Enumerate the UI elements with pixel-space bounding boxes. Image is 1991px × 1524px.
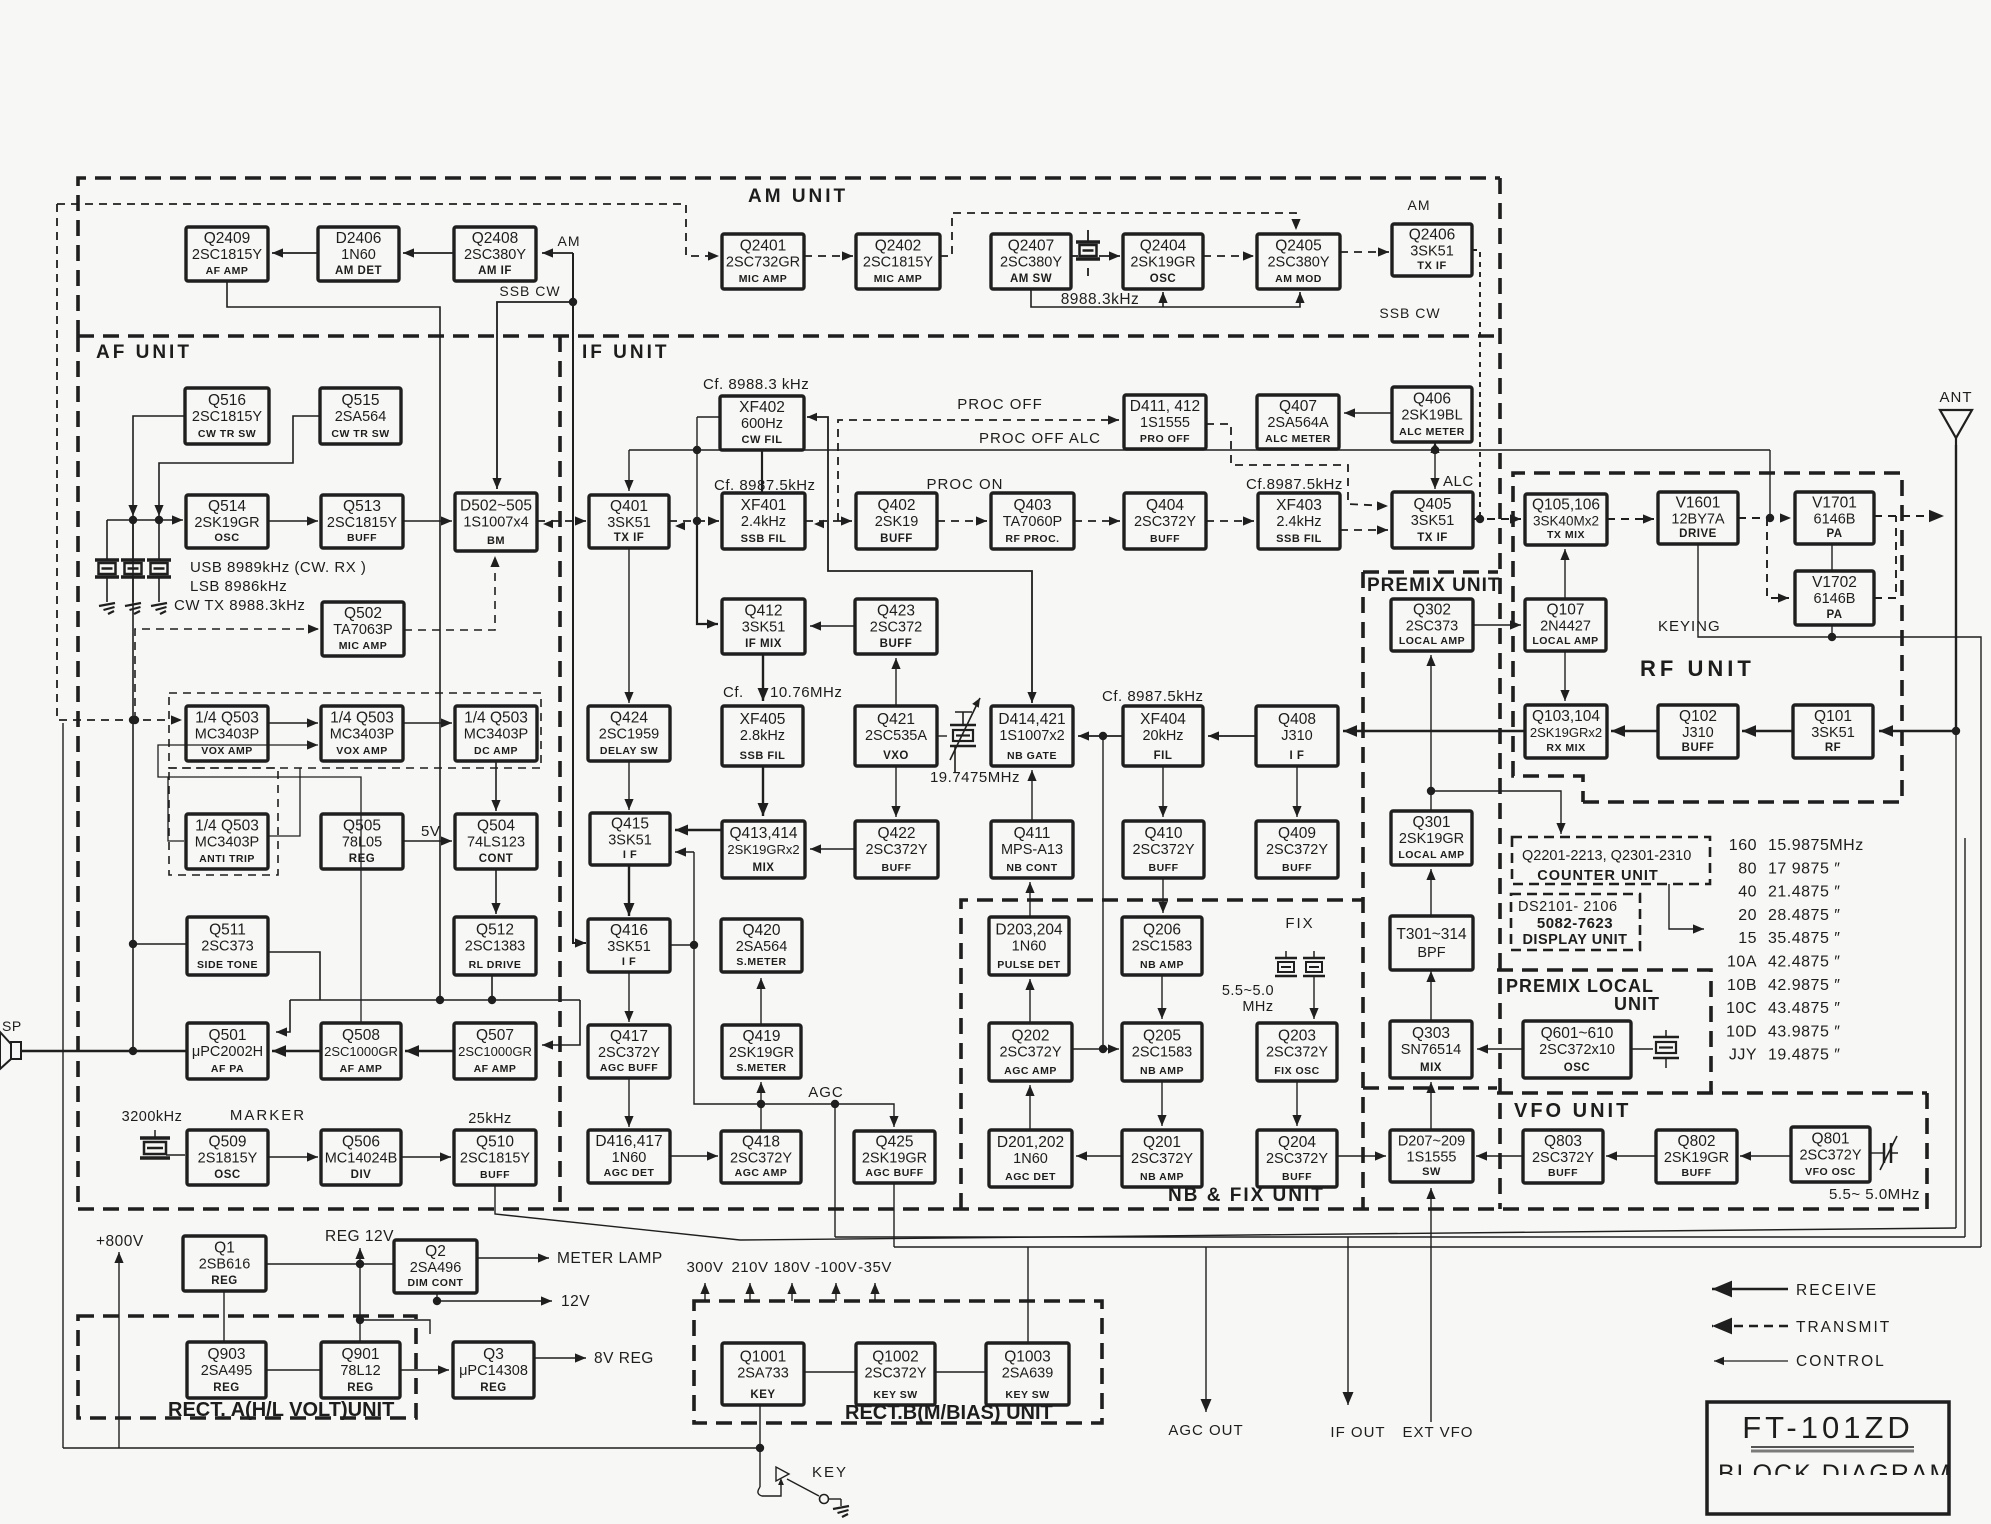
svg-text:ANT: ANT [1940,389,1973,406]
node Q3 tap [356,1316,364,1324]
svg-text:Q405: Q405 [1414,496,1452,513]
svg-text:1/4 Q503: 1/4 Q503 [330,710,394,727]
svg-text:DISPLAY UNIT: DISPLAY UNIT [1522,932,1627,948]
svg-text:210V: 210V [731,1259,768,1276]
node XF404 out tap [1099,732,1107,740]
label freq 15 [1768,930,1840,947]
svg-text:Q2408: Q2408 [472,230,519,247]
svg-text:Q411: Q411 [1014,825,1051,842]
svg-text:AGC BUFF: AGC BUFF [865,1167,923,1179]
wire VFO varcap link [1870,1152,1884,1154]
label TRANSMIT [1796,1319,1891,1336]
svg-text:Q409: Q409 [1278,825,1316,842]
wire AGC OUT line [1201,1247,1212,1412]
label MARKER [230,1107,306,1124]
block D207~209 SW [1390,1130,1473,1182]
svg-text:Q203: Q203 [1278,1027,1316,1044]
svg-text:Q415: Q415 [611,816,649,833]
svg-text:OSC: OSC [1564,1062,1590,1074]
block Q423 BUFF [855,599,937,654]
svg-text:D201,202: D201,202 [997,1134,1064,1151]
label +800V [96,1233,144,1250]
svg-text:AM DET: AM DET [335,265,382,277]
label band 15 [1738,930,1757,947]
block D502~505 BM [455,493,537,551]
wire volt arrow 300V [700,1283,709,1301]
ground gnd LSB [125,603,141,614]
wire IF OUT line [1343,1237,1354,1405]
svg-text:42.9875 ″: 42.9875 ″ [1768,977,1840,994]
wire EXT VFO line [1426,1188,1435,1422]
wire AM line into Q2408 [542,248,573,257]
wire Q601 crystal link [1631,1048,1653,1050]
wire Q2406 output dotted down [1472,250,1480,516]
svg-text:BUFF: BUFF [880,533,913,545]
block XF401 SSB FIL [722,493,805,549]
wire Q1002 to Q1003 [935,1371,986,1373]
svg-text:2SC373: 2SC373 [1406,619,1458,635]
node x133 mic junction [129,716,137,724]
svg-text:43.4875 ″: 43.4875 ″ [1768,1000,1840,1017]
wire Q412 to XF405 [758,654,769,701]
block Q412 IF MIX [722,599,805,654]
block D411,412 PRO OFF [1124,395,1206,449]
svg-text:160: 160 [1729,837,1757,854]
svg-text:TRANSMIT: TRANSMIT [1796,1319,1891,1336]
svg-text:S.METER: S.METER [736,956,786,968]
node ALC tap [1766,514,1774,522]
svg-text:2SB616: 2SB616 [199,1257,251,1273]
label freq JJY [1768,1047,1840,1064]
label AGC OUT [1168,1422,1243,1439]
svg-text:REG 12V: REG 12V [325,1228,394,1245]
svg-text:2SC732GR: 2SC732GR [726,255,800,271]
svg-text:REG: REG [347,1382,373,1394]
wire Q508 to Q501 [272,1045,321,1057]
block Q102 BUFF [1658,705,1738,758]
label EXT VFO [1403,1424,1474,1441]
svg-text:USB 8989kHz (CW. RX ): USB 8989kHz (CW. RX ) [190,559,366,576]
wire legend control [1714,1357,1788,1365]
node NB AGC junction [1099,1045,1107,1053]
svg-text:Cf.8987.5kHz: Cf.8987.5kHz [1246,476,1343,493]
wire V1601 to V1701 dashed [1738,513,1791,522]
svg-text:REG: REG [349,853,375,865]
wire XF404 to Q410 [1158,766,1167,817]
label RECT A UNIT [168,1399,394,1421]
svg-text:VFO UNIT: VFO UNIT [1514,1100,1631,1122]
wire Q417 to D416 [624,1078,633,1127]
wire Q107 to TX MIX [1560,549,1569,599]
block Q2408 AM IF [454,227,536,281]
wire Q1 to Q2 [266,1263,394,1265]
wire ANT to Q101 [1879,725,1956,737]
label volt 300V [686,1259,723,1276]
svg-text:3200kHz: 3200kHz [122,1109,183,1125]
svg-text:Q412: Q412 [745,603,783,620]
label freq 10C [1768,1000,1840,1017]
block Q2406 TX IF [1392,224,1472,276]
svg-text:12V: 12V [561,1293,590,1310]
wire left riser [62,723,64,1448]
wire NB tap to Q205 [1103,1044,1119,1053]
svg-text:-35V: -35V [858,1259,892,1276]
svg-text:RF UNIT: RF UNIT [1640,656,1755,681]
svg-text:MC3403P: MC3403P [330,727,394,743]
label PREMIX LOCAL [1506,976,1654,996]
svg-text:I F: I F [1290,750,1305,762]
label 12V [561,1293,590,1310]
svg-text:MC14024B: MC14024B [325,1151,398,1167]
svg-text:VOX AMP: VOX AMP [201,745,253,757]
wire XF403 to Q405 dashed [1340,525,1388,534]
svg-text:80: 80 [1738,860,1757,877]
wire Q903 to Q901 [266,1369,321,1371]
label AM near Q2408 [558,233,581,249]
block Q803 BUFF [1523,1130,1603,1183]
svg-text:METER LAMP: METER LAMP [557,1250,663,1267]
svg-text:D416,417: D416,417 [595,1133,662,1150]
wire Q401 to XF401 dashed [669,516,719,525]
block Q422 BUFF [855,821,938,878]
label freq 10A [1768,954,1840,971]
svg-text:LOCAL AMP: LOCAL AMP [1399,635,1465,647]
unit border AM UNIT top-left [78,178,1500,336]
svg-text:TX MIX: TX MIX [1547,529,1585,541]
wire Q406 to Q405 ALC [1430,442,1439,489]
wire DC AMP to Q504 [491,761,500,811]
wire bus drop AGC [834,1104,836,1237]
wire Q302 to Q107 [1473,620,1521,629]
svg-text:DIV: DIV [351,1169,372,1181]
svg-text:2S1815Y: 2S1815Y [198,1151,258,1167]
svg-text:OSC: OSC [214,532,239,544]
svg-text:Q516: Q516 [208,392,246,409]
wire NB tap down [1102,736,1104,1049]
wire Q516 down [128,416,185,516]
svg-text:Q418: Q418 [742,1134,780,1151]
svg-text:AM IF: AM IF [478,265,512,277]
svg-text:CW FIL: CW FIL [742,434,783,446]
svg-text:BUFF: BUFF [882,862,912,874]
svg-text:19.7475MHz: 19.7475MHz [930,769,1020,786]
svg-text:21.4875 ″: 21.4875 ″ [1768,884,1840,901]
block Q424 DELAY SW [588,706,670,761]
svg-text:FIL: FIL [1154,750,1173,762]
wire volt arrow -100V [831,1283,840,1301]
svg-text:SSB FIL: SSB FIL [740,750,786,762]
wire V1701 to V1702 link [1831,544,1833,571]
svg-text:CW TX 8988.3kHz: CW TX 8988.3kHz [174,597,305,614]
label freq 80 [1768,860,1840,877]
svg-text:2SA639: 2SA639 [1002,1366,1054,1382]
wire Q514 to Q513 [268,516,318,525]
wire AGC into Q415 [675,847,694,856]
wire x697 vertical [696,417,698,521]
svg-text:NB GATE: NB GATE [1007,750,1057,762]
label DS2101-2106 [1518,899,1618,915]
svg-text:78L12: 78L12 [340,1363,380,1379]
label RECT B UNIT [845,1402,1053,1424]
svg-text:AGC AMP: AGC AMP [735,1167,788,1179]
svg-text:S.METER: S.METER [736,1062,786,1074]
svg-text:RECEIVE: RECEIVE [1796,1282,1878,1299]
label Cf. 8987.5kHz left [714,477,816,494]
svg-text:Q410: Q410 [1145,825,1183,842]
svg-text:XF404: XF404 [1140,711,1186,728]
svg-text:2SC372Y: 2SC372Y [1532,1150,1594,1166]
svg-text:2SC372Y: 2SC372Y [865,842,927,858]
svg-text:V1702: V1702 [1812,574,1857,591]
svg-text:I F: I F [622,956,636,968]
svg-text:RF PROC.: RF PROC. [1005,533,1059,545]
svg-text:D207~209: D207~209 [1398,1134,1465,1150]
wire bus drop Q425 [893,1183,895,1247]
svg-text:8V REG: 8V REG [594,1350,654,1367]
block Q418 AGC AMP [721,1131,801,1183]
crystal carrier crystal LSB [121,560,145,577]
svg-text:IF OUT: IF OUT [1330,1424,1385,1441]
wire +800V arrow [114,1252,123,1448]
svg-text:78L05: 78L05 [342,835,382,851]
svg-text:Q419: Q419 [743,1028,781,1045]
svg-text:SSB CW: SSB CW [1379,305,1440,321]
svg-text:2SK19GR: 2SK19GR [862,1151,927,1167]
svg-text:Q501: Q501 [209,1027,247,1044]
wire Q507 to Q508 [405,1045,454,1057]
svg-text:DRIVE: DRIVE [1679,528,1717,540]
label ALC [1443,473,1474,490]
svg-text:J310: J310 [1281,728,1312,744]
svg-text:Q101: Q101 [1814,708,1852,725]
label band 80 [1738,860,1757,877]
svg-text:2SC1959: 2SC1959 [599,727,659,743]
wire Q101 to Q102 [1742,725,1793,737]
antenna ANT [1940,410,1972,445]
block Q101 RF [1793,705,1873,758]
unit border RECT A UNIT [78,1316,416,1418]
block Q1001 KEY [722,1343,804,1405]
wire AGC rail [694,852,899,1127]
node ALC rail junction [1431,446,1439,454]
crystal marker crystal 3200kHz [140,1138,170,1158]
block Q515 CW TR SW [320,388,401,444]
wire Q421 to Q422 [891,766,900,817]
svg-text:Q509: Q509 [209,1134,247,1151]
svg-text:Q2409: Q2409 [204,230,251,247]
premix crystal [1653,1030,1679,1068]
block Q417 AGC BUFF [588,1025,670,1078]
svg-text:Q512: Q512 [476,921,514,938]
label freq 10B [1768,977,1840,994]
wire carrier crystal rail to Q514 [107,515,183,524]
block Q205 NB AMP [1122,1023,1202,1081]
svg-text:AGC BUFF: AGC BUFF [600,1062,658,1074]
block Q401 TX IF [589,495,669,548]
node AGC Q419 tap [757,1100,765,1108]
wire Q422 to Q413 [810,844,855,853]
node x697 on rail [693,446,701,454]
wire 8988.3kHz feedback [1031,289,1305,307]
svg-text:3SK51: 3SK51 [1410,244,1454,260]
wire Q803 to D207 [1476,1151,1523,1160]
label freq 10D [1768,1023,1840,1040]
block D201,202 AGC DET [989,1130,1072,1187]
svg-text:AM: AM [558,233,581,249]
svg-text:Cf. 8987.5kHz: Cf. 8987.5kHz [1102,688,1204,705]
wire Q502 dashed input [135,624,319,720]
svg-text:Q421: Q421 [877,711,915,728]
node x697 on TX line [693,517,701,525]
svg-text:Q206: Q206 [1143,921,1181,938]
label AF UNIT [96,342,192,363]
label NB & FIX UNIT [1168,1185,1325,1206]
label KEY [812,1464,848,1481]
svg-text:NB AMP: NB AMP [1140,1065,1184,1077]
svg-text:Q513: Q513 [343,498,381,515]
node SSB CW junction [569,298,577,306]
svg-text:Q401: Q401 [610,498,648,515]
svg-text:AGC OUT: AGC OUT [1168,1422,1243,1439]
wire crystal stem LSB [132,520,134,560]
wire mic dashed to Q2401 [57,204,719,261]
svg-text:Q413,414: Q413,414 [729,825,797,842]
svg-text:2SK19GRx2: 2SK19GRx2 [727,842,799,857]
svg-text:SN76514: SN76514 [1401,1042,1461,1058]
label AM near Q2406 [1408,197,1431,213]
wire marker crystal to Q509 [166,1154,185,1156]
unit border AM/IF right edge [1498,178,1502,1209]
block Q303 MIX [1390,1021,1472,1078]
svg-text:SIDE TONE: SIDE TONE [197,959,258,971]
svg-text:BUFF: BUFF [347,532,377,544]
label USB freq [190,559,366,576]
wire Q512 to audio bus [491,975,493,1000]
wire crystal stem USB [106,520,108,560]
svg-text:2SC372Y: 2SC372Y [1132,842,1194,858]
block Q415 IF [590,813,670,865]
block Q421 VXO [855,706,937,766]
block D416,417 AGC DET [588,1130,670,1183]
svg-text:AM UNIT: AM UNIT [748,186,848,207]
svg-text:JJY: JJY [1729,1047,1757,1064]
svg-text:10.76MHz: 10.76MHz [770,684,842,701]
svg-text:1S1007x2: 1S1007x2 [999,728,1064,744]
wire Q2 to METER LAMP [477,1253,549,1262]
wire XF405 to Q413 [758,766,769,816]
wire Q513 to BM [403,516,452,525]
label volt 210V [731,1259,768,1276]
wire Q2407 to crystal [1071,255,1078,257]
block Q302 LOCAL AMP [1391,599,1473,651]
wire AFAMP feedback to VOX2 [158,740,361,1023]
svg-text:2SC380Y: 2SC380Y [1267,255,1329,271]
block Q513 BUFF [321,495,403,548]
svg-text:VFO OSC: VFO OSC [1805,1166,1856,1178]
svg-text:CW TR SW: CW TR SW [331,428,389,440]
wire Q802 to Q803 [1606,1151,1656,1160]
svg-text:2SC372Y: 2SC372Y [1266,1044,1328,1060]
wire Q416 to Q417 [624,972,633,1022]
wire crystal gnd stem CWX [158,577,160,602]
block Q509 OSC [187,1130,268,1185]
label volt -100V [815,1259,858,1276]
svg-text:1N60: 1N60 [1012,938,1047,954]
svg-text:Q903: Q903 [208,1346,246,1363]
svg-text:20: 20 [1738,907,1757,924]
svg-text:2SC372x10: 2SC372x10 [1539,1042,1615,1058]
unit border VOX dashed box [169,693,541,875]
label KEYING [1658,618,1721,635]
block Q801 VFO OSC [1791,1127,1870,1182]
svg-text:NB CONT: NB CONT [1006,862,1057,874]
node AGC Q416 tap [690,941,698,949]
block Q1 REG [183,1236,266,1291]
svg-text:MIC AMP: MIC AMP [874,273,923,285]
svg-text:μPC2002H: μPC2002H [192,1044,263,1060]
wire crystal stem CWX [158,520,160,560]
block Q1003 KEY SW [986,1343,1069,1405]
block Q2401 MIC AMP [722,234,804,289]
label PROC ON [926,476,1003,493]
svg-text:BPF: BPF [1417,945,1445,961]
wire bus line 2 [835,1236,1965,1238]
label COUNTER UNIT [1537,868,1659,884]
svg-text:I F: I F [623,849,637,861]
wire Q413 to Q415 [675,825,722,836]
label REG 12V [325,1228,394,1245]
svg-text:REG: REG [213,1382,239,1394]
svg-text:Q417: Q417 [610,1028,648,1045]
unit border VFO right [1925,1093,1929,1209]
svg-text:2SC1815Y: 2SC1815Y [192,409,262,425]
svg-text:TX IF: TX IF [1417,532,1448,544]
block Q901 REG [321,1342,400,1398]
svg-text:2SK19BL: 2SK19BL [1401,408,1462,424]
label band 10C [1726,1000,1757,1017]
wire Q411 to NB GATE [1027,770,1036,821]
block Q503b VOX AMP [321,706,403,761]
svg-text:MPS-A13: MPS-A13 [1001,842,1063,858]
wire Q202 to junction [1072,1048,1103,1050]
svg-text:2SC1815Y: 2SC1815Y [863,255,933,271]
node x133 Q511 junction [129,940,137,948]
svg-text:1N60: 1N60 [1013,1151,1048,1167]
svg-text:DELAY SW: DELAY SW [600,745,658,757]
wire Q511 left link [133,943,187,945]
wire Q205 to Q201 [1157,1081,1166,1126]
svg-text:VOX AMP: VOX AMP [336,745,388,757]
svg-text:2SC380Y: 2SC380Y [464,247,526,263]
svg-text:2SC1815Y: 2SC1815Y [460,1151,530,1167]
svg-text:Q424: Q424 [610,710,648,727]
ground key ground [833,1506,849,1517]
svg-text:BM: BM [487,535,505,547]
wire Q424 to Q415 [624,761,633,810]
block Q516 CW TR SW [185,388,269,444]
svg-text:D2406: D2406 [336,230,382,247]
svg-text:2SC372Y: 2SC372Y [1799,1148,1861,1164]
wire volt arrow 180V [787,1283,796,1301]
block Q107 LOCAL AMP [1525,599,1606,651]
crystal carrier crystal CWX [147,560,171,577]
wire Q206 to Q205 [1157,975,1166,1019]
unit border COUNTER UNIT box [1512,837,1710,884]
wire audio bus to Q507 [542,1000,580,1050]
VFO variable capacitor [1880,1136,1898,1170]
wire Q504 to Q512 [491,869,500,914]
svg-text:Q301: Q301 [1413,814,1451,831]
